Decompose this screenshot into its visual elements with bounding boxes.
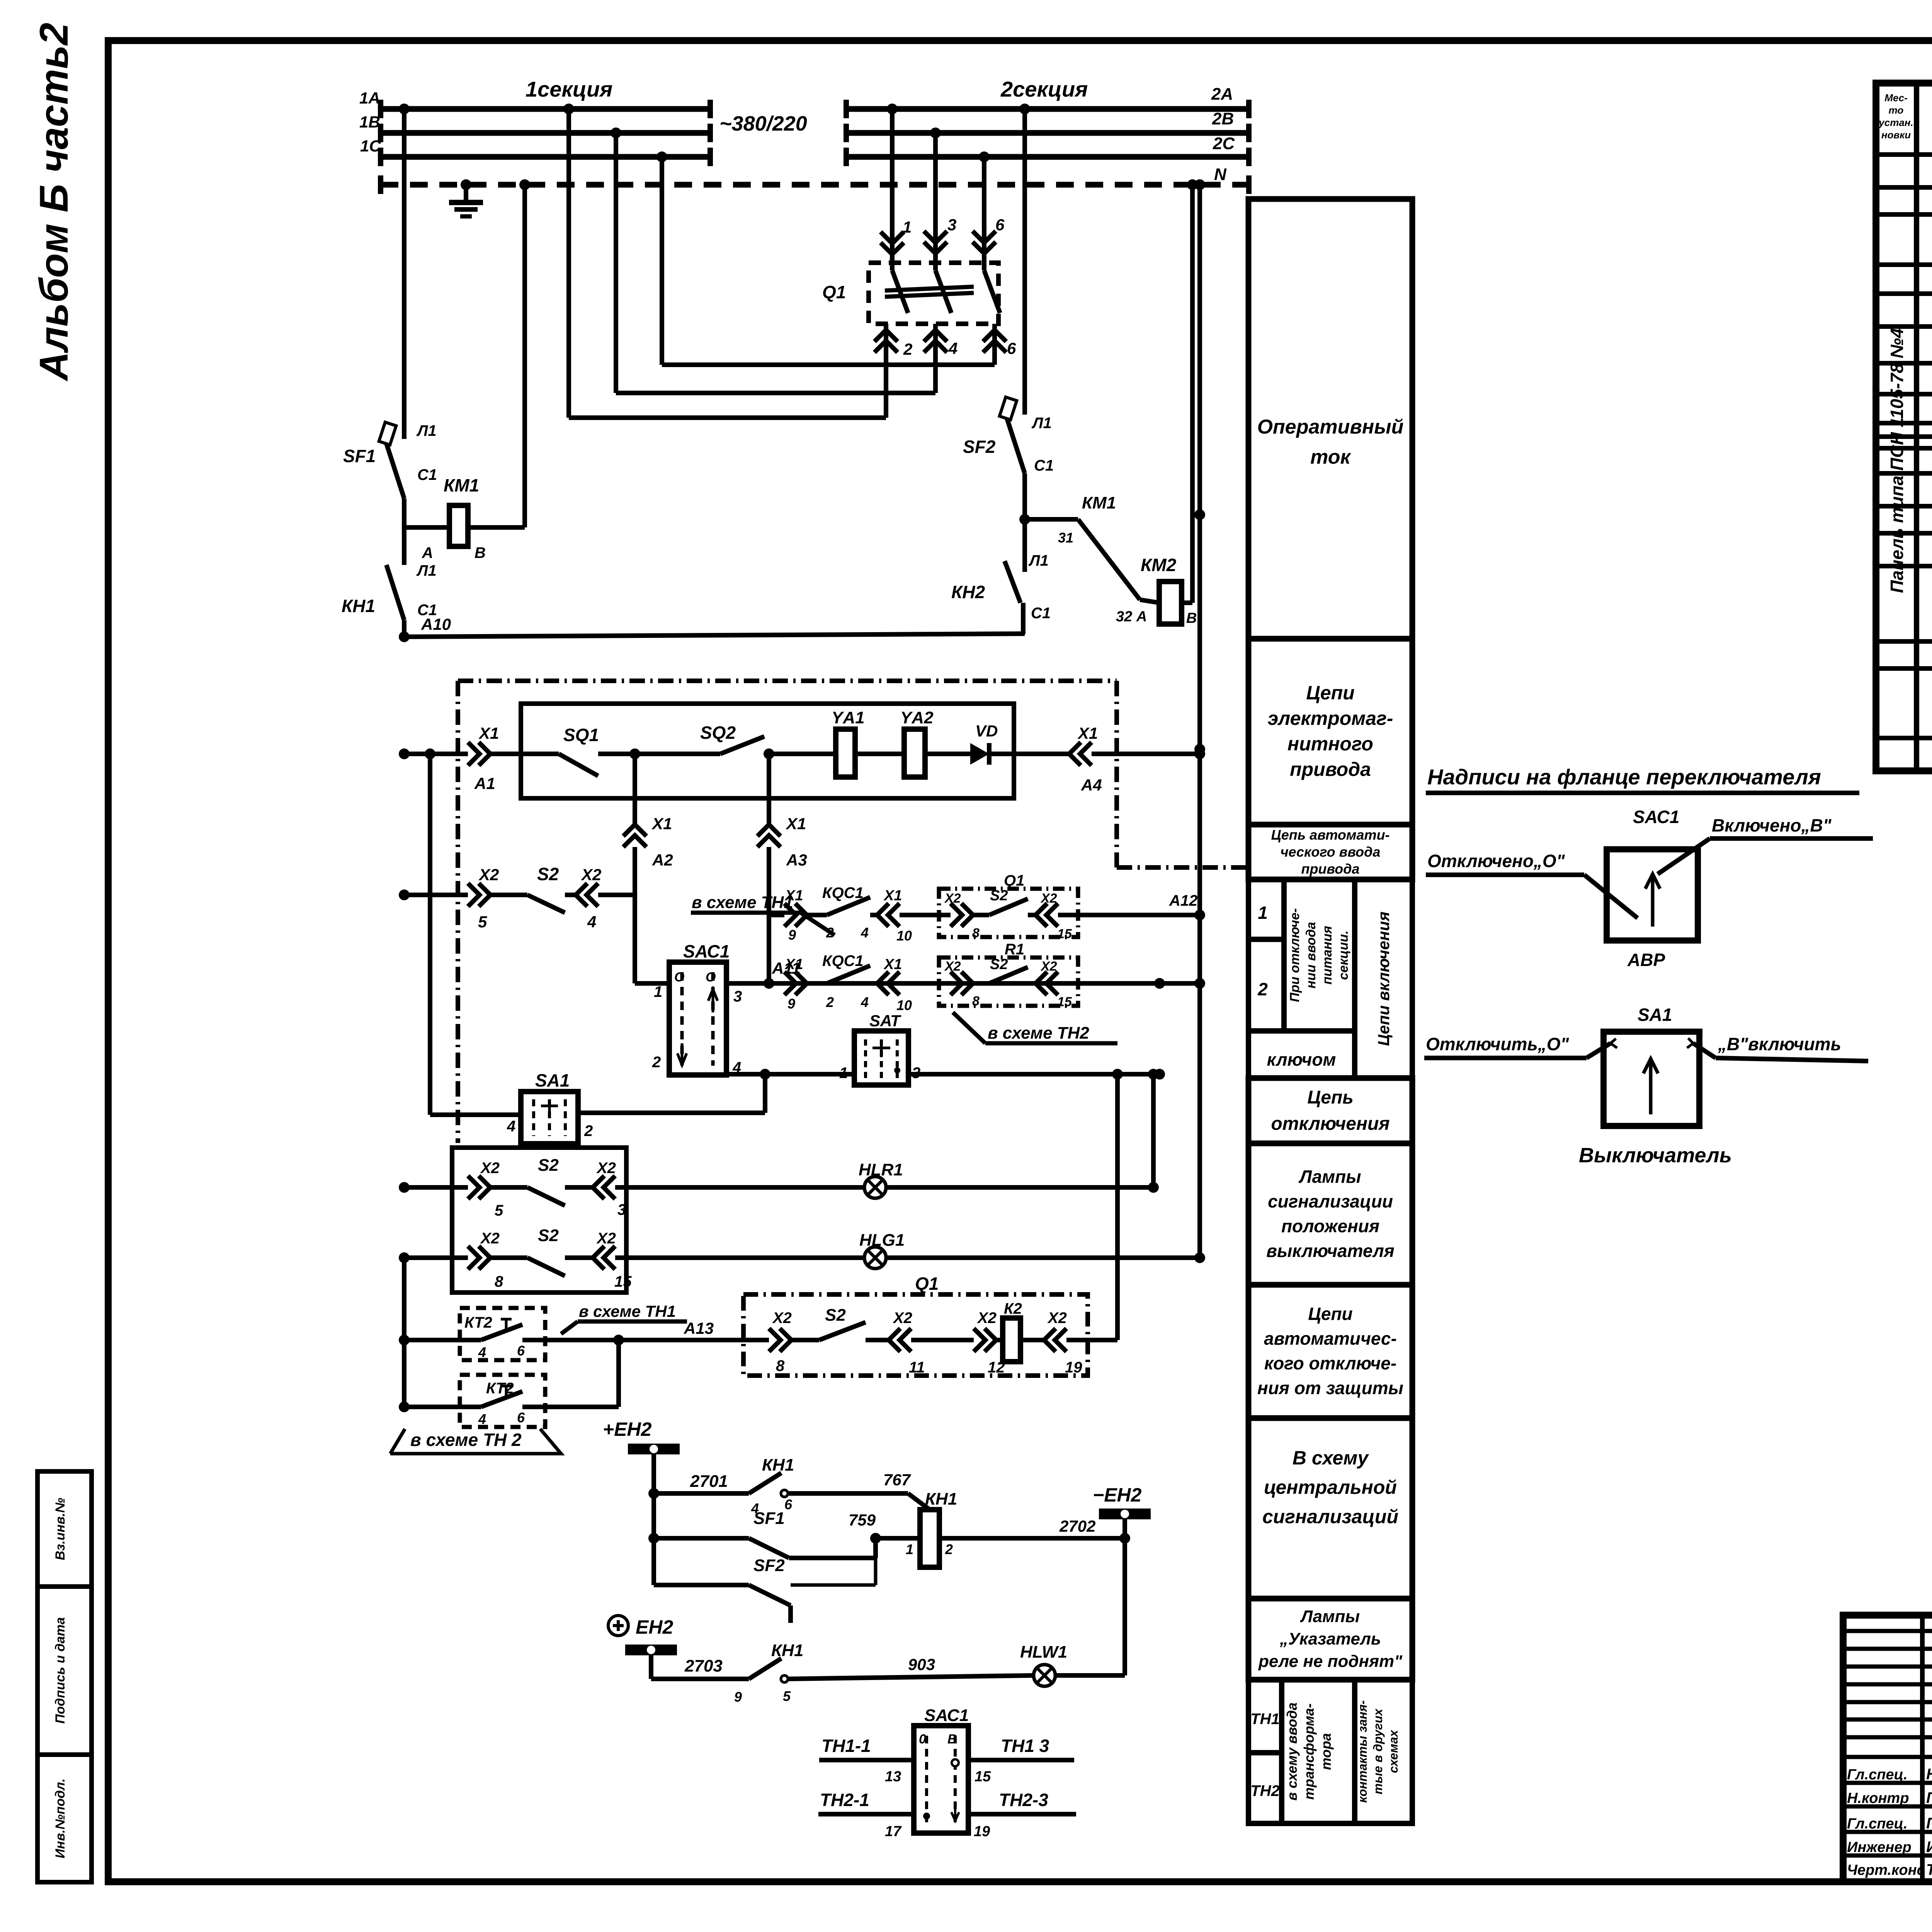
svg-text:Горелик: Горелик (1926, 1789, 1932, 1806)
svg-text:КН2: КН2 (951, 582, 985, 602)
svg-text:„Указатель: „Указатель (1279, 1629, 1381, 1648)
arrow in SAC1 box (1645, 874, 1660, 927)
box tsepi vklyucheniya (rotated) (1355, 879, 1412, 1078)
svg-text:2: 2 (903, 340, 912, 358)
svg-text:КМ1: КМ1 (444, 475, 479, 495)
svg-text:8: 8 (972, 926, 980, 940)
ground symbol on N (464, 185, 468, 202)
svg-text:А: А (422, 544, 433, 561)
wire 2701 row (654, 1491, 749, 1496)
svg-text:15: 15 (614, 1273, 632, 1290)
svg-text:секции.: секции. (1336, 930, 1351, 980)
svg-text:Л1: Л1 (1031, 415, 1052, 432)
svg-text:в схеме ТН2: в схеме ТН2 (988, 1024, 1089, 1043)
wire SAC1-4 row (726, 1072, 1160, 1077)
node on N drop (1194, 748, 1205, 759)
svg-text:SАТ: SАТ (869, 1012, 901, 1030)
svg-text:Мес-: Мес- (1884, 92, 1908, 104)
svg-text:767: 767 (883, 1471, 911, 1489)
connector X1 A4 (1069, 742, 1092, 765)
fuse EH2 lower (625, 1645, 677, 1655)
wire A10 row (402, 620, 406, 637)
svg-text:15: 15 (975, 1769, 991, 1785)
box TN2 (1248, 1753, 1282, 1823)
svg-text:1С: 1С (360, 137, 381, 155)
svg-text:АВР: АВР (1627, 950, 1665, 970)
drive circuit solid box (521, 704, 1014, 798)
svg-text:Х2: Х2 (478, 866, 499, 884)
svg-text:2А: 2А (1211, 85, 1233, 104)
svg-text:4: 4 (478, 1344, 486, 1360)
wire S2 row (399, 889, 410, 900)
svg-text:10: 10 (896, 997, 912, 1013)
box v skhemu tsentralnoy signalizatsii (1248, 1418, 1412, 1599)
lamp HLG1 (864, 1247, 886, 1269)
svg-text:нии ввода: нии ввода (1304, 922, 1318, 988)
arrow in SA1 box (1643, 1059, 1658, 1114)
wire HLG1 row (399, 1252, 410, 1263)
Q1 drive dash-dot outline (458, 679, 1117, 683)
svg-text:Альбом Б часть2: Альбом Б часть2 (32, 23, 77, 382)
svg-text:SF1: SF1 (343, 446, 376, 466)
svg-text:КН1: КН1 (771, 1641, 803, 1660)
wire 2A down to SF2 (1019, 104, 1030, 114)
svg-text:ческого ввода: ческого ввода (1281, 844, 1381, 860)
svg-text:реле не поднят": реле не поднят" (1258, 1652, 1403, 1671)
svg-text:2В: 2В (1212, 109, 1234, 128)
svg-text:9: 9 (787, 996, 795, 1012)
box 1/2 keys (1248, 879, 1284, 939)
svg-text:15: 15 (1057, 927, 1072, 941)
svg-text:2701: 2701 (690, 1472, 728, 1491)
svg-text:КМ1: КМ1 (1082, 493, 1116, 512)
svg-text:13: 13 (885, 1769, 901, 1785)
svg-text:HLW1: HLW1 (1020, 1643, 1067, 1662)
svg-text:1: 1 (1258, 903, 1268, 923)
box TN1 (1248, 1680, 1282, 1753)
box tsepi avtomaticheskogo otklyucheniya (1248, 1285, 1412, 1418)
svg-text:VD: VD (975, 722, 998, 740)
electromagnet coil YA1 (836, 729, 855, 777)
svg-text:6: 6 (517, 1343, 525, 1359)
svg-text:N: N (1214, 165, 1227, 184)
svg-text:Цепи: Цепи (1306, 682, 1354, 704)
title block outer (1843, 1615, 1932, 1882)
svg-text:Х2: Х2 (596, 1160, 616, 1177)
svg-text:4: 4 (587, 913, 596, 931)
svg-text:Гл.спец.: Гл.спец. (1847, 1767, 1908, 1783)
svg-text:S2: S2 (538, 1156, 559, 1175)
svg-text:5: 5 (495, 1202, 503, 1219)
wire lamp return (1151, 1074, 1156, 1187)
svg-text:Накитин: Накитин (1926, 1766, 1932, 1783)
connector X2-4 (565, 893, 576, 897)
svg-text:А3: А3 (786, 851, 807, 869)
svg-text:новки: новки (1881, 129, 1911, 141)
contact KH2 (1005, 561, 1020, 603)
svg-text:Х1: Х1 (1077, 724, 1098, 742)
svg-text:HLR1: HLR1 (859, 1160, 903, 1179)
Q1 dash-dot box (trip circuit) (743, 1294, 1088, 1376)
svg-text:759: 759 (849, 1511, 876, 1529)
svg-text:КQС1: КQС1 (822, 952, 864, 969)
svg-text:трансформа-: трансформа- (1301, 1703, 1317, 1799)
wire KQC upper row A12 (769, 913, 784, 917)
Q1 blades (892, 270, 908, 313)
wire pole2 to 1A (569, 415, 886, 420)
svg-text:6: 6 (995, 216, 1005, 234)
box v skhemu vvoda transformatora (rotated) (1282, 1680, 1355, 1823)
box tsepi elektromagnitnogo privoda (1248, 639, 1412, 825)
svg-text:3: 3 (912, 1065, 920, 1082)
svg-text:3: 3 (947, 216, 956, 234)
svg-text:Х1: Х1 (651, 815, 672, 833)
svg-text:6: 6 (1007, 339, 1016, 357)
svg-text:Лампы: Лампы (1298, 1167, 1361, 1187)
svg-text:1секция: 1секция (526, 77, 612, 101)
svg-text:ТН2: ТН2 (1250, 1782, 1280, 1799)
relay coil KH1 (920, 1510, 939, 1567)
box klyuchom (1248, 1031, 1355, 1078)
svg-text:устан.: устан. (1878, 117, 1913, 128)
wire pole6 to 1C (662, 362, 995, 367)
box pri otklyuchenii vvoda (rotated) (1284, 879, 1355, 1031)
svg-text:Х1: Х1 (478, 724, 499, 742)
S2 contacts solid box (452, 1148, 626, 1293)
svg-text:Оперативный: Оперативный (1257, 416, 1404, 438)
svg-text:SА1: SА1 (535, 1070, 570, 1090)
wire A11 row (726, 981, 1200, 986)
wire KQC lower row (726, 981, 784, 986)
bus 1A (381, 106, 710, 112)
svg-text:5: 5 (478, 913, 487, 931)
svg-text:нитного: нитного (1287, 733, 1373, 755)
svg-text:Тимофеева: Тимофеева (1926, 1861, 1932, 1878)
svg-text:в схеме ТН 2: в схеме ТН 2 (410, 1430, 522, 1450)
svg-text:1: 1 (903, 218, 912, 236)
svg-text:О: О (674, 970, 684, 985)
svg-text:КQС1: КQС1 (822, 884, 864, 901)
svg-text:сигнализаций: сигнализаций (1262, 1506, 1398, 1527)
svg-text:ТН2-3: ТН2-3 (999, 1790, 1048, 1810)
svg-text:автоматичес-: автоматичес- (1264, 1328, 1397, 1349)
box lampy signalizatsii (1248, 1143, 1412, 1285)
wire row A1-A4 (399, 748, 410, 759)
wire KM1 coil to N (522, 185, 527, 527)
svg-text:8: 8 (972, 994, 980, 1009)
svg-text:ключом: ключом (1267, 1049, 1336, 1070)
svg-text:С1: С1 (417, 466, 437, 483)
svg-text:Цепь автомати-: Цепь автомати- (1271, 827, 1389, 843)
svg-text:КН1: КН1 (342, 596, 375, 616)
svg-text:ТН1 3: ТН1 3 (1001, 1736, 1049, 1756)
svg-text:Л1: Л1 (416, 562, 437, 579)
S2 dash-dot box upper (Q1) (939, 889, 1078, 937)
svg-text:Х1: Х1 (883, 888, 902, 904)
svg-text:КМ2: КМ2 (1141, 555, 1177, 575)
svg-text:кого отключе-: кого отключе- (1264, 1353, 1396, 1373)
svg-text:S2: S2 (537, 864, 559, 884)
svg-text:Вз.инв.№: Вз.инв.№ (53, 1498, 68, 1560)
svg-text:3: 3 (733, 988, 742, 1005)
svg-text:2: 2 (652, 1054, 661, 1071)
svg-text:Q1: Q1 (822, 282, 846, 302)
box kontakty zanyatye v drugikh skhemakh (rotated) (1355, 1680, 1412, 1823)
svg-text:С1: С1 (1031, 605, 1051, 622)
box tsep avtomaticheskogo vvoda privoda (1248, 825, 1412, 879)
svg-text:Цепь: Цепь (1307, 1087, 1354, 1108)
svg-text:8: 8 (495, 1273, 503, 1290)
svg-text:~380/220: ~380/220 (719, 112, 807, 135)
svg-text:Отключить„О": Отключить„О" (1426, 1034, 1570, 1054)
nameplate SA1 box (1604, 1032, 1699, 1126)
svg-text:S2: S2 (990, 888, 1008, 904)
svg-text:4: 4 (507, 1118, 515, 1135)
svg-text:ния от защиты: ния от защиты (1257, 1378, 1403, 1398)
contact S2 (red lamp) (527, 1187, 565, 1206)
svg-text:Х2: Х2 (1040, 959, 1057, 974)
svg-text:10: 10 (896, 928, 912, 944)
svg-text:Х2: Х2 (1047, 1310, 1067, 1327)
diode VD (970, 743, 989, 765)
svg-text:КН1: КН1 (762, 1456, 794, 1475)
svg-text:SАС1: SАС1 (924, 1706, 969, 1725)
svg-text:−ЕН2: −ЕН2 (1093, 1484, 1142, 1506)
lamp HLW1 (1034, 1665, 1055, 1686)
svg-text:2: 2 (584, 1122, 593, 1139)
svg-text:К2: К2 (1004, 1300, 1022, 1317)
svg-text:С1: С1 (1034, 457, 1054, 474)
aux switch SQ2 (720, 736, 764, 754)
svg-text:2секция: 2секция (1000, 77, 1088, 101)
svg-text:5: 5 (783, 1688, 791, 1704)
svg-text:Q1: Q1 (1004, 872, 1024, 889)
svg-text:привода: привода (1290, 759, 1371, 780)
svg-text:Л1: Л1 (416, 422, 437, 439)
wire from SA1 (578, 1111, 765, 1115)
svg-text:положения: положения (1281, 1216, 1379, 1236)
electromagnet coil YA2 (904, 729, 925, 777)
svg-text:А10: А10 (421, 615, 451, 633)
svg-text:А2: А2 (652, 851, 673, 869)
svg-text:2: 2 (945, 1541, 953, 1557)
svg-text:В: В (474, 544, 486, 561)
title block left grid (1920, 1615, 1925, 1882)
svg-text:В схему: В схему (1293, 1447, 1369, 1469)
svg-text:контакты заня-: контакты заня- (1355, 1700, 1369, 1803)
wire 2B to Q1 pole3 (930, 128, 941, 138)
svg-text:SF2: SF2 (753, 1556, 785, 1575)
breaker SF2 aux (654, 1583, 749, 1587)
wire HLR1 row (399, 1182, 410, 1193)
svg-text:Х1: Х1 (786, 815, 806, 833)
svg-text:31: 31 (1058, 530, 1073, 546)
svg-text:Х2: Х2 (977, 1310, 997, 1327)
svg-text:Х1: Х1 (883, 956, 902, 973)
svg-text:Выключатель: Выключатель (1579, 1144, 1732, 1167)
svg-text:1: 1 (906, 1541, 913, 1557)
svg-text:„В"включить: „В"включить (1718, 1034, 1841, 1054)
breaker SF2 (1007, 418, 1025, 473)
relay KT2 box 1 (460, 1308, 545, 1360)
wire X1-A2 riser (633, 754, 637, 824)
parts table columns (1914, 83, 1919, 771)
svg-text:ток: ток (1310, 446, 1351, 468)
svg-text:6: 6 (784, 1497, 793, 1512)
svg-text:4: 4 (861, 994, 869, 1010)
svg-text:ТН2-1: ТН2-1 (820, 1790, 869, 1810)
svg-text:2: 2 (826, 994, 834, 1010)
svg-text:Горелик: Горелик (1926, 1815, 1932, 1832)
svg-text:центральной: центральной (1264, 1476, 1397, 1498)
relay KT2 box 2 (460, 1375, 545, 1427)
svg-text:ТН1-1: ТН1-1 (821, 1736, 871, 1756)
svg-text:В: В (947, 1732, 957, 1747)
svg-text:SАС1: SАС1 (1633, 807, 1679, 827)
svg-text:1: 1 (839, 1065, 848, 1082)
svg-text:Х2: Х2 (893, 1310, 912, 1327)
contact S2 (trip) (819, 1322, 866, 1340)
node KM1 aux tap (1019, 514, 1030, 525)
breaker SF1 (386, 444, 404, 498)
contact S2 (green lamp) (527, 1258, 565, 1276)
box lampy ukazatel rele ne podnyat (1248, 1599, 1412, 1680)
album label (left margin) (32, 23, 77, 382)
svg-text:S2: S2 (825, 1306, 846, 1325)
wire 1A down to SF1 (399, 104, 410, 114)
svg-text:4: 4 (861, 925, 869, 940)
nameplate SAC1 box (1607, 849, 1698, 940)
pilot EH2 symbol (608, 1616, 628, 1636)
svg-text:17: 17 (885, 1823, 902, 1840)
svg-text:Х2: Х2 (944, 891, 961, 906)
svg-text:электромаг-: электромаг- (1268, 707, 1393, 729)
svg-text:15: 15 (1057, 995, 1072, 1009)
svg-text:А12: А12 (1169, 892, 1197, 909)
parts table rows (1876, 152, 1932, 157)
svg-text:питания: питания (1320, 926, 1335, 985)
Q1 pole bottoms (884, 324, 888, 418)
svg-text:R1: R1 (1005, 941, 1024, 958)
svg-text:903: 903 (908, 1655, 935, 1673)
bus N (dashed) (381, 182, 1249, 188)
svg-text:3: 3 (617, 1201, 626, 1218)
wire 759 row (654, 1536, 749, 1541)
left circuit bus end (402, 1258, 406, 1407)
svg-text:выключателя: выключателя (1266, 1241, 1395, 1261)
svg-text:SF1: SF1 (753, 1509, 785, 1528)
svg-text:Инженер: Инженер (1847, 1839, 1912, 1855)
table side label (rotated) (1887, 328, 1907, 593)
svg-text:1А: 1А (359, 89, 380, 107)
svg-text:Подпись и дата: Подпись и дата (53, 1617, 68, 1724)
contact KQC1 lower (827, 966, 870, 983)
svg-text:Инв.№подл.: Инв.№подл. (53, 1778, 68, 1858)
svg-text:0: 0 (919, 1732, 926, 1747)
svg-text:Иванова: Иванова (1926, 1838, 1932, 1855)
wire N drop (1194, 179, 1205, 190)
left margin stamp boxes (37, 1471, 92, 1587)
lamp HLR1 (864, 1177, 886, 1198)
svg-text:SQ1: SQ1 (563, 725, 599, 745)
contact KM1 aux (1025, 517, 1078, 522)
svg-text:2С: 2С (1213, 134, 1235, 153)
wire K2 return (1115, 1074, 1120, 1340)
contact S2 (527, 895, 565, 913)
svg-text:А4: А4 (1081, 776, 1102, 794)
svg-text:Лампы: Лампы (1300, 1607, 1360, 1626)
contact KH1 (2701) (749, 1473, 781, 1493)
wire 2A to Q1 pole1 (887, 104, 898, 114)
svg-text:YА1: YА1 (832, 708, 865, 727)
svg-text:схемах: схемах (1386, 1730, 1400, 1773)
bus 2B (846, 130, 1249, 136)
svg-text:А1: А1 (474, 774, 495, 793)
svg-text:Отключено„О": Отключено„О" (1427, 851, 1565, 871)
Q1 linked bar (885, 287, 974, 291)
wire riser to SA1 (425, 748, 435, 759)
bus 2A (846, 106, 1249, 112)
breaker Q1 dashed box (869, 263, 998, 324)
svg-text:ТН1: ТН1 (1250, 1711, 1280, 1728)
svg-text:9: 9 (788, 927, 796, 943)
wire 2C to Q1 pole5 (979, 151, 990, 162)
switch SAT (854, 1031, 908, 1085)
contact KH1 (2703) (749, 1658, 781, 1679)
relay coil K2 (1003, 1318, 1020, 1362)
aux switch SQ1 (559, 754, 598, 776)
breaker SF1 aux (749, 1538, 789, 1558)
svg-text:Цепи включения: Цепи включения (1374, 912, 1393, 1046)
svg-text:КТ2: КТ2 (464, 1314, 492, 1331)
node SQ junction (629, 748, 640, 759)
svg-text:Включено„В": Включено„В" (1712, 815, 1832, 835)
svg-text:в схему ввода: в схему ввода (1284, 1702, 1300, 1801)
svg-text:2702: 2702 (1059, 1517, 1095, 1535)
svg-text:SАС1: SАС1 (683, 941, 730, 961)
svg-text:YА2: YА2 (900, 708, 934, 727)
bus 1B (381, 130, 710, 136)
svg-text:в схеме ТН1: в схеме ТН1 (579, 1302, 676, 1320)
svg-text:привода: привода (1301, 861, 1359, 877)
svg-text:Н.контр: Н.контр (1847, 1790, 1909, 1806)
svg-text:SQ2: SQ2 (700, 723, 736, 743)
contact KH1 (386, 565, 404, 620)
svg-text:4: 4 (478, 1411, 486, 1427)
svg-text:6: 6 (517, 1410, 525, 1425)
box tsep otklyucheniya (1248, 1078, 1412, 1143)
wire SF2 to node (1022, 473, 1027, 519)
svg-text:КН1: КН1 (925, 1490, 957, 1509)
svg-text:Гл.спец.: Гл.спец. (1847, 1816, 1908, 1832)
svg-text:Л1: Л1 (1028, 552, 1049, 569)
wire X1-A3 riser (767, 754, 771, 824)
wire SAC1-1 (635, 981, 669, 986)
contact KQC1 upper (827, 897, 870, 915)
svg-text:то: то (1889, 104, 1904, 116)
svg-text:Цепи: Цепи (1308, 1304, 1352, 1324)
svg-text:Панель типа ПСН 1105-78 №4: Панель типа ПСН 1105-78 №4 (1887, 328, 1907, 593)
svg-text:19: 19 (1065, 1359, 1082, 1376)
svg-text:1В: 1В (359, 113, 380, 131)
svg-text:в схеме ТН1: в схеме ТН1 (692, 893, 793, 912)
node A3 tap (764, 748, 774, 759)
svg-text:32 А: 32 А (1116, 609, 1147, 625)
svg-text:тора: тора (1318, 1733, 1334, 1770)
svg-text:Х2: Х2 (581, 866, 601, 884)
svg-text:тые в других: тые в других (1371, 1708, 1385, 1794)
parts table outer (1876, 83, 1932, 771)
